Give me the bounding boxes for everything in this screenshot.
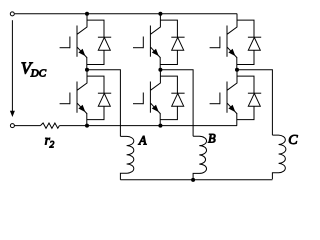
diode Q3D (anti-parallel, top) — [160, 20, 184, 64]
wire phase C — [237, 70, 272, 135]
diode Q6D (anti-parallel, bottom) — [160, 76, 184, 120]
inductor A — [120, 136, 133, 179]
diode Q1D (anti-parallel, top) — [87, 20, 111, 64]
resistor r2 — [40, 123, 59, 128]
terminal - of VDC — [10, 124, 14, 128]
node top rail / leg2 — [158, 12, 162, 16]
IGBT Q2 — [210, 70, 237, 126]
terminal + of VDC — [10, 12, 14, 16]
node phase C — [235, 68, 239, 72]
neutral bus wire — [120, 179, 272, 181]
diode Q5D (anti-parallel, top) — [237, 20, 261, 64]
IGBT Q3 — [133, 14, 160, 70]
wire phase A — [87, 70, 120, 137]
svg-text:2: 2 — [50, 140, 55, 150]
node top rail / leg1 — [85, 12, 89, 16]
diode Q2D (anti-parallel, bottom) — [237, 76, 261, 120]
wire terminal to resistor — [15, 125, 41, 127]
VDC arrowhead — [10, 111, 15, 117]
node phase A — [85, 68, 89, 72]
junction on negative rail — [158, 124, 162, 128]
IGBT Q4 — [60, 70, 87, 126]
svg-text:B: B — [208, 132, 216, 146]
junction on negative rail — [85, 124, 89, 128]
inductor C — [272, 135, 285, 179]
svg-text:DC: DC — [30, 68, 47, 80]
IGBT Q6 — [133, 70, 160, 126]
diode Q4D (anti-parallel, bottom) — [87, 76, 111, 120]
VDC arrow line — [11, 20, 13, 112]
node phase B — [158, 68, 162, 72]
top rail (+ DC bus) — [15, 13, 238, 15]
IGBT Q1 — [60, 14, 87, 70]
IGBT Q5 — [210, 14, 237, 70]
svg-text:A: A — [138, 134, 147, 148]
junction neutral / B — [191, 178, 195, 182]
negative rail wire — [59, 125, 237, 127]
svg-text:C: C — [288, 133, 298, 148]
inductor B — [193, 136, 206, 180]
wire phase B — [160, 70, 193, 137]
